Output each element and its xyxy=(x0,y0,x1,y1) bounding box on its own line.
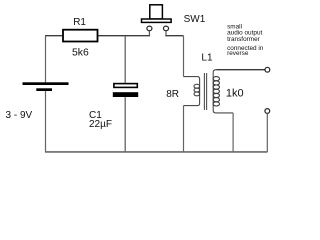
svg-text:transformer: transformer xyxy=(227,36,261,43)
wire bottom rail xyxy=(45,151,267,153)
switch SW1 actuator bar xyxy=(142,19,172,22)
output terminal top circle xyxy=(265,67,270,72)
capacitor C1 top plate (hollow) xyxy=(114,84,137,88)
transformer L1 primary coil loops xyxy=(194,84,200,96)
wire output terminal bottom to rail xyxy=(266,113,268,152)
wire capacitor bottom lead xyxy=(124,97,126,152)
wire battery positive lead (vertical) xyxy=(45,36,47,83)
capacitor C1 bottom plate (solid) xyxy=(113,92,138,97)
svg-text:3 - 9V: 3 - 9V xyxy=(6,110,33,121)
wire top rail from resistor to switch left terminal xyxy=(98,35,151,37)
svg-text:22µF: 22µF xyxy=(89,119,112,130)
wire transformer secondary drop to rail xyxy=(232,113,234,152)
switch SW1 left contact circle xyxy=(147,26,152,31)
transformer L1 secondary coil loops xyxy=(213,77,219,106)
wire transformer secondary axis and bottom exit xyxy=(213,70,233,113)
transformer L1 core (two bars) xyxy=(203,73,205,110)
svg-text:reverse: reverse xyxy=(227,50,249,57)
wire drop to transformer primary xyxy=(183,36,185,77)
wire transformer primary bottom drop to rail xyxy=(183,106,185,153)
svg-text:L1: L1 xyxy=(201,52,213,63)
svg-text:8R: 8R xyxy=(166,89,179,100)
svg-text:R1: R1 xyxy=(73,17,86,28)
wire switch right contact horizontal run xyxy=(165,35,183,37)
wire battery negative lead to bottom rail xyxy=(45,91,47,152)
switch SW1 push button cap xyxy=(150,5,163,19)
wire transformer primary top entry xyxy=(184,77,200,106)
svg-text:5k6: 5k6 xyxy=(72,48,89,59)
svg-text:1k0: 1k0 xyxy=(226,87,244,99)
resistor R1 body xyxy=(63,30,98,42)
svg-text:SW1: SW1 xyxy=(184,14,206,25)
wire switch right contact to transformer drop xyxy=(165,31,167,37)
wire top rail from battery to resistor xyxy=(45,35,63,37)
battery B1 short negative plate xyxy=(36,88,52,91)
output terminal bottom circle xyxy=(265,109,270,114)
switch SW1 right contact circle xyxy=(163,26,168,31)
wire capacitor top lead xyxy=(124,36,126,84)
battery B1 long positive plate xyxy=(23,82,69,85)
wire switch left contact riser xyxy=(148,31,150,37)
wire transformer secondary top exit to output terminal xyxy=(217,69,265,71)
